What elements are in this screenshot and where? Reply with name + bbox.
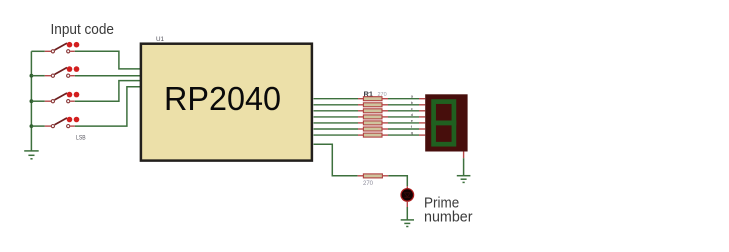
resistor R1a 270 (358, 97, 388, 101)
wire: display common to ground (463, 152, 465, 176)
wire: RN e to display (388, 118, 425, 123)
resistor R1b 270 (358, 103, 388, 107)
wire: RN d to display (388, 112, 425, 117)
switch SW2 (31, 66, 79, 77)
switch SW3 (31, 92, 79, 103)
wire: SW1 to U1 pin1 (75, 51, 142, 69)
wire: RN c to display (388, 106, 425, 111)
wire: SW3 to U1 pin3 (75, 81, 142, 102)
wire: RN a to display (388, 94, 425, 99)
node: bus junction row2 (30, 74, 34, 78)
svg-text:Input code: Input code (51, 22, 115, 38)
svg-text:g: g (411, 130, 413, 135)
wire: R2 to LED (388, 176, 407, 189)
ground GND1 (left bus) (24, 151, 39, 159)
svg-text:d: d (411, 112, 413, 117)
resistor R1g 270 (358, 133, 388, 137)
wire: U1 to RN f (314, 128, 359, 130)
wire: U1 to RN b (314, 104, 359, 106)
chip U1 RP2040 (141, 36, 312, 161)
svg-text:c: c (411, 106, 413, 111)
svg-text:U1: U1 (156, 36, 165, 43)
wire: U1 to RN a (314, 98, 359, 100)
ground GND3 (LED) (401, 220, 414, 227)
wire: SW2 to U1 pin2 (75, 75, 142, 77)
resistor R1f 270 (358, 127, 388, 131)
wire: RN g to display (388, 130, 425, 135)
node: bus junction row3 (30, 99, 34, 103)
wire: RN f to display (388, 124, 425, 129)
wire: left vertical bus (30, 51, 32, 151)
svg-text:RP2040: RP2040 (164, 80, 281, 117)
wire: SW4 to U1 pin4 (75, 87, 142, 126)
svg-text:number: number (424, 209, 473, 226)
resistor R1c 270 (358, 109, 388, 113)
wire: U1 to RN e (314, 122, 359, 124)
svg-text:270: 270 (363, 181, 374, 187)
switch SW1 (31, 42, 79, 53)
node: bus junction row4 (30, 124, 34, 128)
resistor R1e 270 (358, 121, 388, 125)
wire: RN b to display (388, 100, 425, 105)
switch SW4 (31, 117, 79, 128)
wire: U1 to RN c (314, 110, 359, 112)
wire: U1 to RN g (314, 134, 359, 136)
wire: LED to ground (406, 201, 408, 220)
ground GND2 (display) (457, 176, 471, 183)
LED D1 (401, 189, 414, 202)
resistor R1d 270 (358, 115, 388, 119)
svg-text:LSB: LSB (76, 136, 86, 142)
resistor R2 270 (358, 174, 389, 178)
wire: U1 to R2 (LED branch) (314, 144, 358, 176)
wire: U1 to RN d (314, 116, 359, 118)
7-segment display DS1 (425, 94, 467, 151)
